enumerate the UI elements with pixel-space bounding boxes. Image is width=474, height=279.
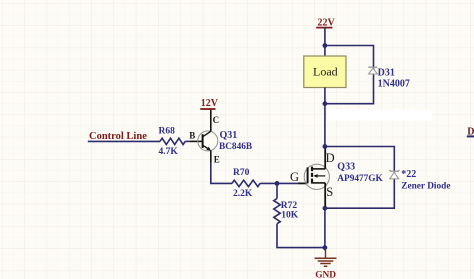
ground GND (315, 248, 337, 279)
junction gate node (275, 181, 280, 186)
wire source node to gnd node (324, 208, 326, 247)
svg-text:G: G (290, 170, 299, 184)
wire top node around D31 branch (325, 46, 374, 104)
svg-text:10K: 10K (281, 211, 299, 221)
svg-text:Load: Load (313, 65, 338, 79)
wire drain node around zener branch (325, 147, 394, 209)
svg-text:D: D (467, 127, 474, 138)
wire 22V to top node (324, 28, 326, 46)
svg-text:R70: R70 (233, 168, 250, 178)
resistor R70 (232, 180, 260, 186)
pin B of Q31 (190, 140, 203, 142)
junction mid node (323, 101, 328, 106)
sheet symbol Load (304, 56, 346, 88)
svg-text:Q31: Q31 (220, 130, 238, 141)
pin E of Q31 (210, 151, 212, 163)
svg-text:12V: 12V (201, 98, 219, 109)
svg-text:Q33: Q33 (337, 162, 355, 173)
resistor R68 (160, 138, 185, 144)
wire top node into Load (324, 46, 326, 57)
wire gate node to Q33 gate (277, 182, 298, 184)
pin G of Q33 (298, 182, 307, 184)
svg-text:S: S (326, 185, 333, 199)
power port 12V (200, 98, 218, 109)
wire gate node to R72 (276, 183, 278, 198)
resistor R72 (274, 199, 280, 224)
svg-text:4.7K: 4.7K (159, 147, 179, 157)
wire Load bottom to mid node (324, 88, 326, 104)
svg-text:*22: *22 (401, 169, 416, 180)
diode D31 (368, 67, 377, 74)
mosfet Q33 (304, 164, 329, 189)
pin D of Q33 (324, 147, 326, 169)
pin C of Q31 (210, 109, 212, 131)
svg-text:AP9477GK: AP9477GK (337, 174, 383, 184)
wire R72 to gnd node (277, 224, 325, 248)
svg-text:R68: R68 (159, 127, 176, 137)
wire right edge net (467, 135, 474, 137)
svg-text:B: B (189, 130, 195, 140)
wire Control Line net (88, 140, 160, 142)
wire mid node to drain node (324, 104, 326, 147)
svg-text:D31: D31 (378, 68, 395, 79)
wire emitter to R70 (211, 163, 232, 184)
svg-text:E: E (214, 155, 220, 165)
zener diode *22 (389, 170, 399, 179)
junction gnd node (323, 245, 328, 250)
svg-text:1N4007: 1N4007 (378, 78, 410, 89)
svg-text:D: D (326, 151, 335, 165)
junction top node (323, 43, 328, 48)
svg-text:Zener Diode: Zener Diode (401, 182, 450, 192)
svg-text:Control Line: Control Line (89, 131, 147, 142)
power port 22V (316, 17, 335, 28)
svg-text:2.2K: 2.2K (233, 189, 253, 199)
junction source node (323, 206, 328, 211)
svg-text:BC846B: BC846B (219, 142, 252, 152)
svg-text:C: C (213, 115, 220, 125)
svg-text:GND: GND (315, 271, 336, 279)
junction drain node (323, 144, 328, 149)
pin S of Q33 (324, 183, 326, 208)
wire R70 to gate node (260, 182, 277, 184)
svg-text:R72: R72 (281, 201, 298, 211)
wire R68 to Q31 base (185, 140, 190, 142)
transistor Q31 (198, 131, 218, 151)
